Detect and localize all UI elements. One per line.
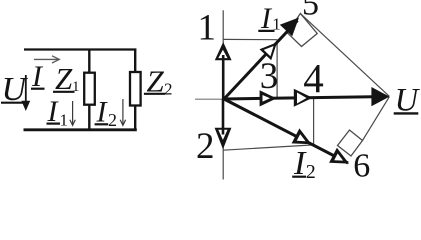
wire top: [24, 48, 136, 50]
label 1: [198, 7, 217, 48]
phasor 3 arrowhead (active comp of I1): [260, 90, 277, 106]
phasor U arrowhead: [371, 87, 389, 106]
svg-text:2: 2: [108, 110, 117, 130]
label U (source voltage): [1, 71, 29, 108]
projection line from 4 tip down to I2 tip: [313, 98, 315, 145]
wire branch Z2 bottom: [134, 105, 136, 130]
wire bottom: [24, 128, 137, 131]
svg-text:3: 3: [260, 56, 279, 97]
label I (total current): [31, 60, 45, 93]
phasor 1 (reactive comp of I1, up): [215, 42, 232, 99]
label 4: [303, 55, 324, 101]
projection line from tip of 1 to I1 tip: [223, 38, 277, 40]
svg-text:5: 5: [302, 0, 319, 23]
svg-text:6: 6: [353, 147, 370, 184]
svg-text:2: 2: [196, 126, 215, 167]
label 5: [302, 0, 319, 23]
wire branch Z2 top: [134, 49, 136, 74]
svg-text:2: 2: [306, 161, 316, 183]
phasor I2 arrowhead (hollow, mid ray): [292, 128, 312, 144]
label 2: [196, 126, 215, 167]
label I1 (phasor): [258, 2, 281, 35]
wire branch Z1 top: [88, 49, 90, 75]
label U (phasor): [394, 83, 421, 119]
node 5 arrowhead (filled): [280, 18, 299, 37]
phasor I2 ray (to node 6): [224, 99, 348, 163]
phasor 4 arrowhead (active comp of I2): [294, 89, 313, 107]
current arrow I2 (down): [120, 99, 125, 125]
node 6 arrowhead (hollow): [329, 148, 349, 164]
impedance Z2 (box): [130, 72, 141, 106]
right-angle square at node 6: [338, 130, 363, 156]
projection line from tip of 2 to I2 tip: [223, 145, 314, 150]
wire branch Z1 bottom: [88, 104, 90, 131]
label 3: [260, 56, 279, 97]
svg-text:1: 1: [272, 14, 281, 33]
svg-text:1: 1: [60, 111, 69, 130]
perpendicular line node 5 to U tip: [300, 14, 389, 97]
horizontal axis (left of origin): [195, 98, 224, 100]
current arrow I (top wire): [34, 56, 59, 63]
label Z2: [144, 64, 173, 99]
phasor I1 ray (to node 5): [224, 21, 298, 100]
phasor U shaft (with 3 and 4 on it): [224, 97, 373, 99]
impedance Z1 (box): [84, 73, 95, 105]
label 6: [353, 147, 370, 184]
svg-text:1: 1: [198, 7, 217, 48]
right-angle square at node 5: [287, 13, 317, 46]
projection line from I1 tip down to axis: [276, 40, 278, 98]
voltage arrow U: [21, 75, 30, 111]
vertical construction line (diagram axis): [222, 10, 224, 179]
current arrow I1 (down): [70, 101, 75, 125]
svg-text:2: 2: [164, 80, 173, 99]
phasor I1 arrowhead (hollow, mid ray): [260, 42, 278, 60]
svg-text:4: 4: [303, 55, 324, 101]
label I2 (phasor): [292, 145, 316, 183]
label I1 (branch current): [47, 95, 69, 130]
label Z1: [53, 61, 80, 96]
phasor 2 (reactive comp of I2, down): [215, 99, 232, 149]
label I2 (branch current): [95, 95, 117, 130]
perpendicular line node 6 to U tip: [363, 97, 390, 141]
